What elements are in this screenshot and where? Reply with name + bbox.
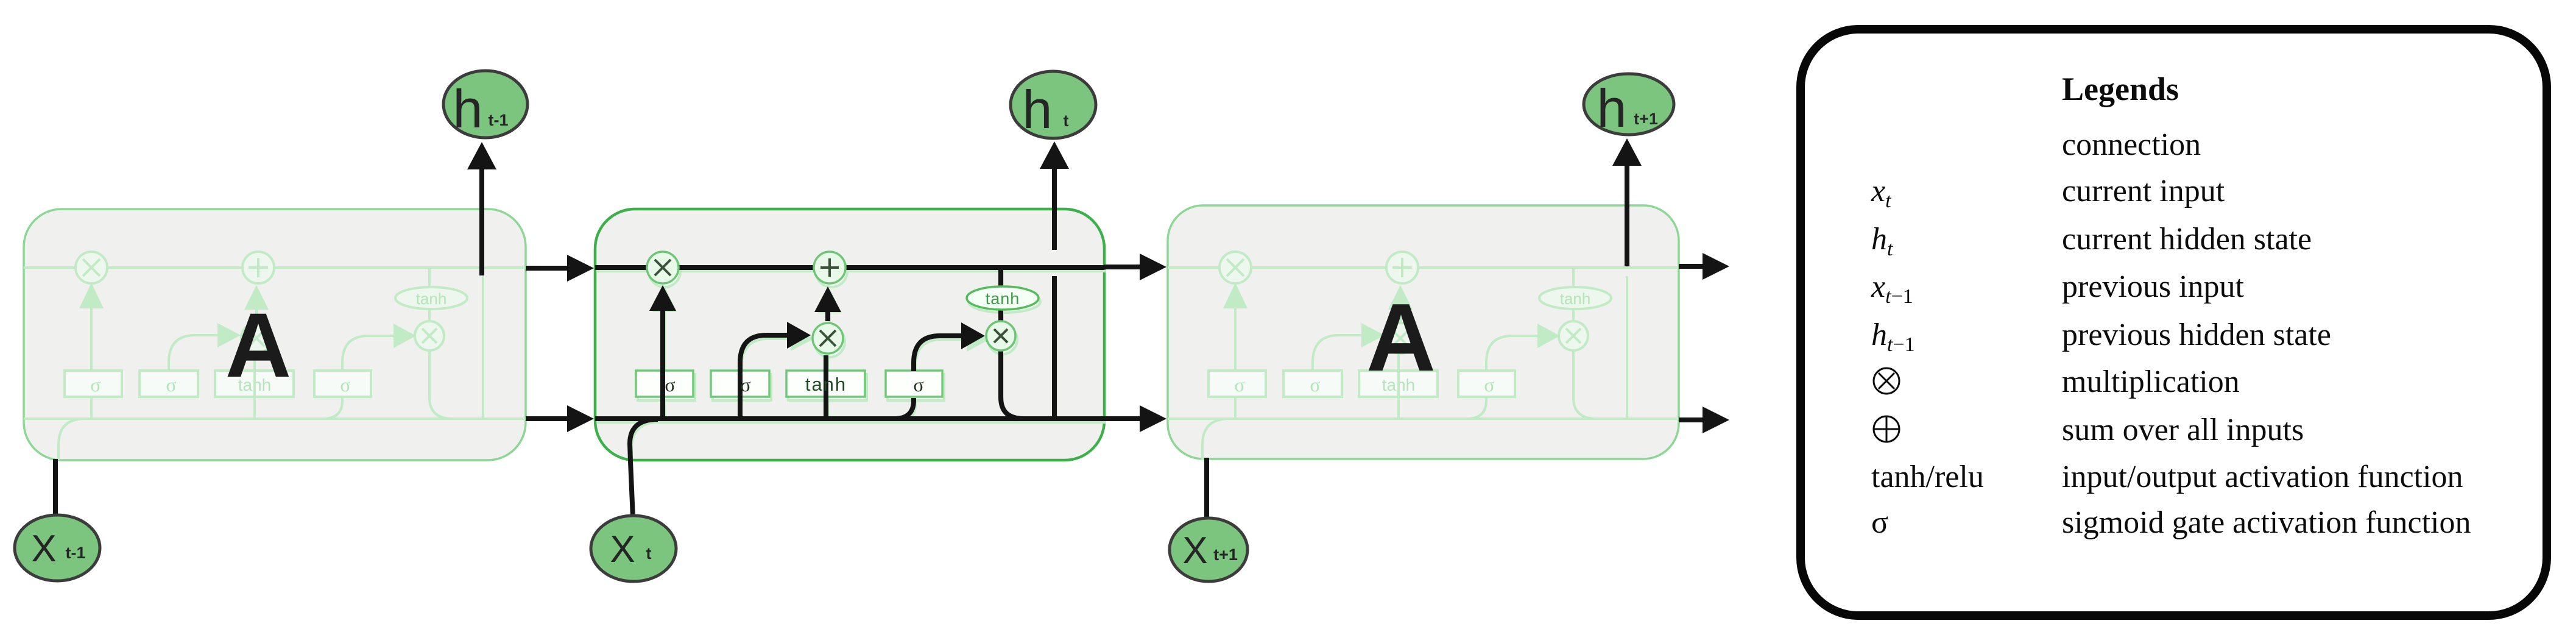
wire: multiply to add arrow line [825, 308, 830, 321]
arrowhead forget gate [649, 285, 676, 311]
wire: middle to right top connection [1104, 265, 1142, 269]
multiply node output gate [986, 321, 1015, 350]
svg-text:σ: σ [665, 374, 675, 396]
ghost internals right cell [1168, 252, 1677, 460]
ghost internals left cell [24, 252, 533, 460]
node h_{t-1} [443, 71, 528, 139]
node x_t [591, 516, 676, 581]
svg-text:sigmoid gate activation functi: sigmoid gate activation function [2062, 505, 2471, 540]
legend frame [1801, 29, 2547, 616]
svg-text:input/output activation functi: input/output activation function [2062, 460, 2463, 494]
node x_{t-1} [15, 515, 100, 581]
left LSTM cell body [24, 209, 526, 460]
wire: right cell h_{t+1} output line [1625, 162, 1629, 266]
arrowhead h_t output [1040, 141, 1069, 169]
wire: left cell h_{t-1} output line [479, 166, 484, 275]
arrowhead input gate [787, 322, 811, 349]
arrowhead h_{t-1} [467, 142, 496, 169]
svg-text:A: A [225, 294, 291, 396]
svg-text:current hidden state: current hidden state [2062, 222, 2312, 257]
multiply node on cell line [647, 252, 679, 283]
wire: input gate curve [740, 335, 796, 398]
gate box sigma forget [636, 371, 693, 397]
svg-text:previous input: previous input [2062, 269, 2245, 304]
right LSTM cell body [1168, 205, 1679, 459]
wire: tanh output down curve [1001, 351, 1024, 419]
arrowhead h_{t+1} [1612, 138, 1642, 166]
svg-text:X: X [610, 528, 635, 570]
wire: forget gate vertical [660, 308, 665, 419]
svg-text:Legends: Legends [2062, 71, 2179, 107]
wire: x_{t-1} riser [53, 459, 58, 515]
wire: middle to right bottom connection [1104, 416, 1142, 421]
svg-text:t-1: t-1 [66, 544, 86, 562]
svg-text:t-1: t-1 [489, 111, 509, 129]
tanh ellipse on output path [967, 286, 1039, 310]
arrowhead middle-right bottom [1140, 405, 1166, 432]
arrowhead output gate [961, 322, 985, 349]
middle LSTM cell body [595, 209, 1104, 460]
svg-text:t: t [646, 544, 652, 563]
wire: cell state top line [595, 265, 1104, 270]
arrowhead middle-right top [1140, 254, 1166, 280]
arrowhead left-middle bottom [567, 405, 594, 432]
middle cell black internals [595, 166, 1104, 517]
svg-text:X: X [31, 528, 56, 570]
svg-text:t+1: t+1 [1213, 545, 1238, 564]
node x_{t+1} [1170, 518, 1247, 581]
svg-text:current input: current input [2062, 174, 2225, 208]
wire: output gate lower curve [894, 398, 914, 419]
add node on cell line [814, 252, 845, 283]
gate box tanh [786, 371, 865, 397]
svg-text:h: h [453, 79, 483, 139]
arrowhead multiply to add [814, 286, 841, 312]
svg-text:σ: σ [740, 374, 750, 396]
wire: input gate lower vertical [738, 398, 743, 419]
wire: hidden output vertical lower [1052, 276, 1057, 419]
node h_t [1011, 71, 1096, 140]
wire: cell to tanh vertical [998, 269, 1003, 321]
wire: left to middle top connection [526, 266, 570, 271]
svg-text:connection: connection [2062, 127, 2201, 162]
wire: hidden state bottom line [595, 416, 1104, 421]
arrowhead right top output [1703, 253, 1729, 280]
svg-text:multiplication: multiplication [2062, 364, 2240, 399]
wire: candidate tanh vertical [824, 355, 828, 419]
svg-text:h: h [1597, 78, 1627, 138]
wire: x_{t+1} riser [1204, 458, 1209, 518]
wire: output gate curve [914, 336, 970, 371]
svg-text:h: h [1023, 79, 1053, 140]
svg-text:sum over all inputs: sum over all inputs [2062, 413, 2304, 447]
svg-text:tanh: tanh [986, 290, 1020, 308]
wire: right cell top output [1679, 264, 1704, 269]
arrowhead right bottom output [1703, 407, 1729, 433]
svg-text:X: X [1182, 530, 1207, 572]
svg-text:t+1: t+1 [1634, 110, 1658, 128]
svg-text:previous hidden state: previous hidden state [2062, 318, 2331, 352]
legend symbol circled plus [1874, 416, 1899, 442]
wire: left to middle bottom connection [526, 416, 570, 421]
svg-text:σ: σ [913, 374, 923, 396]
wire: x_t input riser [630, 419, 658, 517]
svg-text:tanh: tanh [805, 374, 847, 395]
svg-text:t: t [1064, 112, 1069, 130]
svg-text:A: A [1366, 284, 1436, 391]
wire: right cell bottom output [1679, 417, 1704, 422]
green halo offset of middle internals [597, 255, 1106, 464]
wire: hidden output vertical upper to h_t [1052, 166, 1057, 250]
svg-text:tanh/relu: tanh/relu [1871, 460, 1984, 494]
gate box sigma input [711, 371, 769, 397]
multiply node input x candidate [813, 323, 843, 353]
legend symbol circled times [1874, 368, 1899, 394]
gate box sigma output [886, 371, 942, 397]
svg-text:σ: σ [1871, 505, 1888, 540]
node h_{t+1} [1584, 74, 1674, 138]
arrowhead left-middle top [567, 255, 594, 282]
